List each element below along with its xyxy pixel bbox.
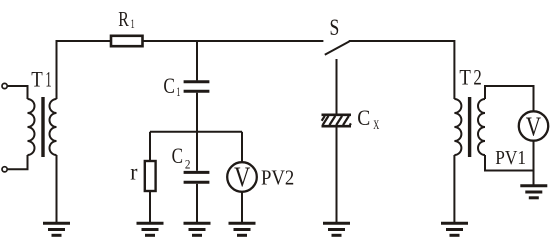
wire switch to Cx — [336, 59, 338, 114]
wire CX to ground — [336, 128, 338, 224]
svg-text:X: X — [373, 117, 379, 132]
ground r — [137, 223, 164, 235]
CX hatching — [322, 116, 351, 125]
label CX — [357, 105, 379, 132]
svg-text:1: 1 — [176, 84, 180, 99]
wire T1 primary bottom to terminal2 — [7, 155, 27, 169]
svg-text:T: T — [31, 67, 43, 92]
wire r branch — [149, 132, 151, 161]
label R1 — [118, 7, 135, 31]
ground PV2 — [229, 223, 256, 235]
resistor R1 — [111, 36, 143, 46]
svg-text:r: r — [130, 160, 137, 186]
wire PV2 branch — [241, 132, 243, 163]
capacitor C1 — [184, 82, 210, 91]
ground PV1 — [520, 186, 547, 198]
wire T2 secondary top to PV1 — [485, 86, 534, 111]
voltmeter PV1 — [519, 111, 548, 140]
svg-text:S: S — [330, 15, 340, 40]
transformer T2 core — [468, 97, 471, 157]
wire terminal1 to T1 primary — [7, 86, 27, 99]
svg-text:2: 2 — [473, 65, 481, 90]
wire PV2 to ground — [241, 192, 243, 223]
wire T2 primary to ground — [453, 155, 455, 223]
resistor r — [145, 161, 156, 191]
label C2 — [172, 143, 191, 172]
svg-text:C: C — [357, 105, 370, 130]
wire T1 top vertical — [56, 40, 58, 99]
ground T2 — [441, 223, 468, 235]
label T1 — [31, 67, 52, 92]
label T2 — [459, 65, 481, 90]
wire C2 to ground — [196, 184, 198, 223]
wire r to ground — [149, 191, 151, 223]
wire rail R1 to switch — [143, 40, 324, 42]
svg-text:1: 1 — [131, 16, 135, 31]
capacitor C2 — [184, 172, 210, 182]
svg-text:PV2: PV2 — [261, 166, 294, 190]
svg-text:1: 1 — [45, 67, 51, 92]
capacitor CX test object — [322, 115, 352, 126]
transformer T1 secondary winding — [50, 99, 57, 155]
svg-text:C: C — [163, 73, 175, 98]
switch S blade — [325, 41, 350, 54]
svg-text:R: R — [118, 7, 129, 31]
label C1 — [163, 73, 180, 99]
svg-text:C: C — [172, 143, 183, 168]
ground C2 — [184, 223, 211, 235]
transformer T1 core — [41, 97, 44, 157]
transformer T2 secondary winding — [478, 99, 485, 155]
svg-text:PV1: PV1 — [495, 147, 526, 169]
wire PV1 to ground — [533, 141, 535, 186]
voltmeter PV2 — [227, 162, 257, 192]
ground T1 — [43, 223, 70, 235]
wire T2 secondary bottom loop — [485, 155, 534, 171]
wire rail switch to T2 corner — [349, 41, 455, 99]
svg-text:2: 2 — [185, 156, 191, 171]
transformer T1 primary winding — [28, 99, 35, 155]
wire top rail left segment — [57, 40, 112, 42]
ground CX — [323, 223, 350, 235]
terminal top-left — [2, 83, 7, 88]
wire C1 to C2 through mid junction — [196, 93, 198, 171]
wire mid horizontal r to PV2 — [150, 131, 242, 133]
wire C1 branch from rail — [196, 41, 198, 80]
terminal bottom-left — [2, 167, 7, 172]
svg-text:V: V — [526, 111, 542, 141]
wire T1 secondary to ground — [56, 155, 58, 223]
svg-text:T: T — [459, 65, 471, 90]
transformer T2 primary winding — [454, 99, 461, 155]
svg-text:V: V — [234, 163, 250, 194]
